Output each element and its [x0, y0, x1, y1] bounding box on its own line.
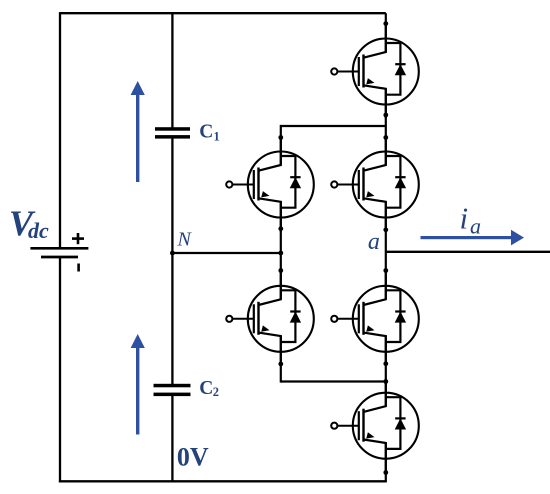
wire: capacitor leg middle segment — [171, 137, 173, 385]
IGBT S5 (lower-right) with freewheel diode — [331, 272, 419, 366]
svg-text:C: C — [199, 122, 213, 143]
label: battery minus sign — [77, 264, 80, 272]
wire: right column into S6 — [385, 336, 387, 406]
wire: bottom 0V bus — [59, 480, 386, 482]
junction dot: S2 emitter terminal — [278, 226, 283, 231]
junction dot: S4 emitter terminal — [278, 362, 283, 367]
IGBT S3 (upper-right) with freewheel diode — [331, 138, 419, 232]
label: battery plus sign — [72, 233, 84, 244]
wire: left rail upper segment — [59, 12, 61, 248]
svg-text:i: i — [460, 201, 469, 236]
IGBT S4 (lower-left of clamp pair) with freewheel diode — [226, 272, 314, 366]
capacitor C2 — [154, 384, 191, 396]
svg-text:a: a — [368, 229, 380, 255]
voltage arrow across C2 (blue, up) — [131, 334, 145, 435]
wire: mid horizontal branch to left column — [281, 125, 386, 127]
junction dot: S6 emitter terminal — [383, 470, 388, 475]
battery Vdc negative plate — [41, 256, 78, 259]
wire: top DC+ bus — [60, 12, 386, 14]
wire: capacitor leg upper segment — [171, 13, 173, 128]
wire: capacitor leg lower segment — [171, 394, 173, 483]
svg-text:1: 1 — [214, 129, 220, 143]
wire: phase output a — [386, 251, 550, 253]
junction dot: S4 collector terminal — [278, 268, 283, 273]
svg-text:a: a — [470, 213, 481, 238]
IGBT S1 (top, series switch) with freewheel diode — [331, 25, 419, 119]
svg-text:0V: 0V — [177, 442, 209, 471]
wire: N to inner switch column — [172, 252, 280, 254]
svg-text:C: C — [199, 378, 213, 399]
current arrow ia (blue, right) — [421, 230, 525, 246]
svg-text:dc: dc — [28, 218, 49, 243]
junction: N wire meets left column — [278, 251, 283, 256]
voltage arrow across C1 (blue, up) — [131, 81, 145, 182]
junction dot: S3 collector terminal — [383, 135, 388, 140]
wire: left column upper segment — [280, 125, 282, 165]
wire: lower horizontal branch to right column — [281, 380, 386, 382]
junction dot: S2 collector terminal — [278, 135, 283, 140]
svg-text:N: N — [177, 229, 193, 251]
wire: right column (top bus to S1 collector) — [385, 13, 387, 52]
junction dot: S5 emitter terminal — [383, 361, 388, 366]
IGBT S6 (bottom, series switch) with freewheel diode — [331, 379, 419, 473]
wire: left column lower segment — [280, 336, 282, 383]
wire: left column middle segment — [280, 202, 282, 299]
junction dot: S1 collector terminal — [383, 21, 388, 26]
wire: S6 emitter to bottom bus — [385, 443, 387, 483]
wire: S1 emitter down to mid node — [385, 89, 387, 165]
capacitor C1 — [155, 127, 190, 138]
svg-text:2: 2 — [213, 385, 219, 399]
battery Vdc positive plate — [30, 247, 88, 250]
junction dot: S3 emitter terminal — [383, 227, 388, 232]
node N junction dot — [170, 251, 175, 256]
wire: left rail lower segment — [59, 257, 61, 482]
junction dot: S1 emitter terminal — [383, 113, 388, 118]
IGBT S2 (upper-left of clamp pair) with freewheel diode — [226, 138, 314, 232]
junction dot: S5 collector terminal — [383, 268, 388, 273]
junction dot: lower branch meets right column — [383, 379, 388, 384]
wire: right column middle segment — [385, 202, 387, 299]
